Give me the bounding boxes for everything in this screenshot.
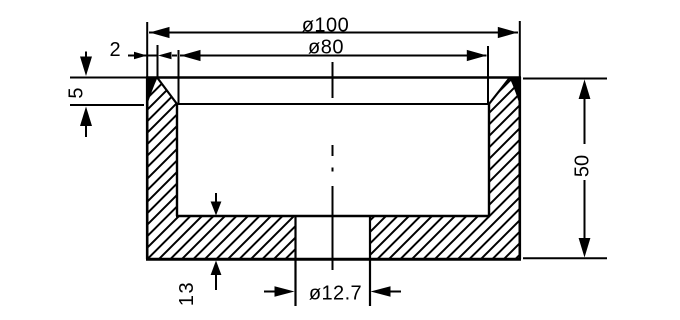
chamfer edge left — [158, 78, 178, 104]
svg-text:ø80: ø80 — [308, 37, 344, 59]
dim 5 extension line bottom — [70, 104, 144, 106]
part outline: right outer wall — [518, 77, 521, 259]
dim ø80 line with arrows — [180, 50, 487, 61]
section hatch left wall and left floor — [147, 78, 296, 259]
solid black thin rim section right — [509, 77, 521, 109]
section hatch right wall and right floor — [370, 78, 520, 259]
inner wall right — [488, 103, 490, 216]
svg-text:2: 2 — [109, 39, 120, 61]
svg-text:5: 5 — [66, 87, 88, 98]
dim 5 arrow bottom — [80, 107, 92, 138]
part outline: left outer wall — [146, 77, 149, 259]
part outline: bottom edge — [146, 258, 521, 261]
svg-text:50: 50 — [572, 155, 594, 177]
cavity shoulder line at chamfer bottom — [177, 103, 489, 105]
dim 13 arrow bottom — [211, 261, 222, 291]
part outline: top rim edge — [146, 76, 521, 79]
hole right edge and extension — [369, 215, 371, 306]
dim 2 arrows and leader — [128, 52, 177, 59]
dim ø100 extension line left — [146, 22, 148, 77]
dim 50 extension line bottom — [523, 257, 607, 259]
dim 2 extension line — [157, 45, 159, 77]
svg-text:13: 13 — [176, 281, 198, 306]
hole left edge and extension — [294, 215, 296, 306]
dim ø12.7 leader arrow left — [264, 286, 295, 297]
dim ø100 extension line right — [519, 21, 521, 77]
dim ø80 extension line left — [178, 50, 180, 103]
solid black thin rim section left — [146, 77, 158, 109]
dim ø80 extension line right — [487, 46, 489, 103]
dim 50 extension line top — [523, 78, 607, 80]
svg-text:ø12.7: ø12.7 — [309, 283, 362, 305]
cavity floor top edge — [176, 215, 490, 217]
dim 13 arrow top — [211, 193, 222, 216]
dim ø100 line with arrows — [149, 27, 518, 38]
center line — [332, 62, 334, 270]
dim ø12.7 leader arrow right — [371, 286, 402, 297]
svg-text:ø100: ø100 — [302, 14, 350, 36]
inner wall left — [176, 103, 178, 216]
dim 5 arrow top — [80, 52, 92, 77]
dim 5 extension line top (left of part) — [70, 77, 146, 79]
dim 50 line with arrows — [579, 80, 591, 258]
chamfer edge right — [489, 78, 510, 104]
